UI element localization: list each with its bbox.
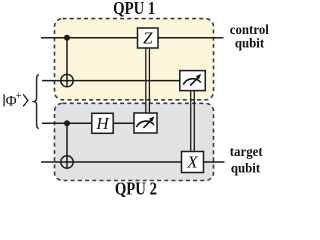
svg-text:qubit: qubit [231, 160, 261, 176]
svg-text:QPU 1: QPU 1 [113, 0, 155, 18]
svg-text:target: target [230, 144, 263, 160]
svg-text:qubit: qubit [235, 35, 265, 51]
svg-text:X: X [186, 153, 198, 172]
svg-text:QPU 2: QPU 2 [115, 180, 157, 198]
svg-text:+: + [16, 91, 22, 102]
svg-text:Z: Z [143, 29, 153, 48]
svg-text:H: H [95, 114, 110, 133]
